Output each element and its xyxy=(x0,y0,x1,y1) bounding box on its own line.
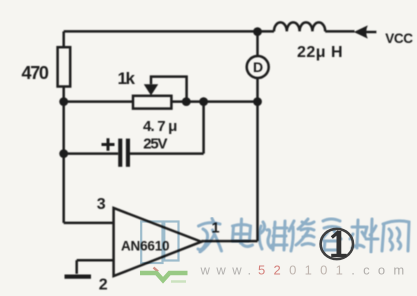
potentiometer wiper arrow xyxy=(144,84,158,95)
wire: junction to motor top xyxy=(256,31,259,56)
char jia xyxy=(198,219,222,253)
svg-text:www.: www. xyxy=(200,262,258,277)
VCC arrow xyxy=(354,25,368,38)
char xiu xyxy=(289,219,314,251)
capacitor C1 4.7u plates xyxy=(118,139,122,167)
inductor L1 22uH xyxy=(274,22,325,31)
node: pot wiper junction xyxy=(182,97,191,106)
watermark chinese characters xyxy=(198,219,409,253)
potentiometer RV1 1k body xyxy=(133,96,171,109)
node: left rail / pot line junction xyxy=(59,97,68,106)
node: top rail / right branch junction xyxy=(253,27,262,36)
svg-text:3: 3 xyxy=(97,196,106,213)
wire: middle rail right part xyxy=(172,100,258,103)
char wei xyxy=(259,221,287,250)
op-amp U1 AN6610 xyxy=(114,208,202,276)
wire: junction to inductor xyxy=(258,30,275,33)
svg-text:25V: 25V xyxy=(143,136,167,153)
watermark logo blue panels xyxy=(141,222,178,264)
ground xyxy=(65,275,92,279)
char liao xyxy=(350,219,378,252)
svg-text:D: D xyxy=(253,59,263,75)
svg-text:470: 470 xyxy=(22,63,49,83)
wire: pin 2 input xyxy=(77,259,114,262)
wire: cap line right segment xyxy=(130,152,204,155)
wire: motor bottom through pot line down to output rail xyxy=(256,78,259,241)
wire: inductor to VCC arrow xyxy=(325,30,354,33)
wire: wiper return to right terminal xyxy=(151,77,187,102)
wire: middle rail (pot line) left part xyxy=(64,100,133,103)
wire: pin 3 input from left rail xyxy=(64,222,114,225)
wire: capacitor branch vertical xyxy=(202,102,205,154)
wire: cap line left segment xyxy=(64,152,118,155)
watermark logo green book xyxy=(140,273,188,282)
motor D xyxy=(247,56,269,78)
node: left rail / cap line junction xyxy=(59,149,68,158)
node: capacitor branch junction xyxy=(199,97,208,106)
capacitor polarity plus xyxy=(102,138,115,151)
svg-text:4. 7 μ: 4. 7 μ xyxy=(143,118,177,135)
wire: output to right rail xyxy=(201,240,257,243)
wire: pin 2 down to ground xyxy=(75,260,78,274)
char wang xyxy=(382,221,409,251)
watermark logo red tick xyxy=(154,268,159,272)
svg-text:2: 2 xyxy=(99,277,108,294)
wire: top rail xyxy=(64,30,258,33)
wire: left vertical top segment xyxy=(62,31,65,47)
char zi xyxy=(322,219,341,251)
svg-text:520101.com: 520101.com xyxy=(258,262,413,277)
svg-text:VCC: VCC xyxy=(385,31,413,46)
resistor R1 470 xyxy=(58,47,71,86)
svg-text:22μ H: 22μ H xyxy=(297,44,343,61)
stamp circled 1 xyxy=(321,229,353,259)
char dian xyxy=(233,219,253,246)
svg-text:1k: 1k xyxy=(118,69,136,88)
wire: left vertical below resistor down to pin3 corner xyxy=(62,87,65,223)
node: right branch / pot line junction xyxy=(253,97,262,106)
